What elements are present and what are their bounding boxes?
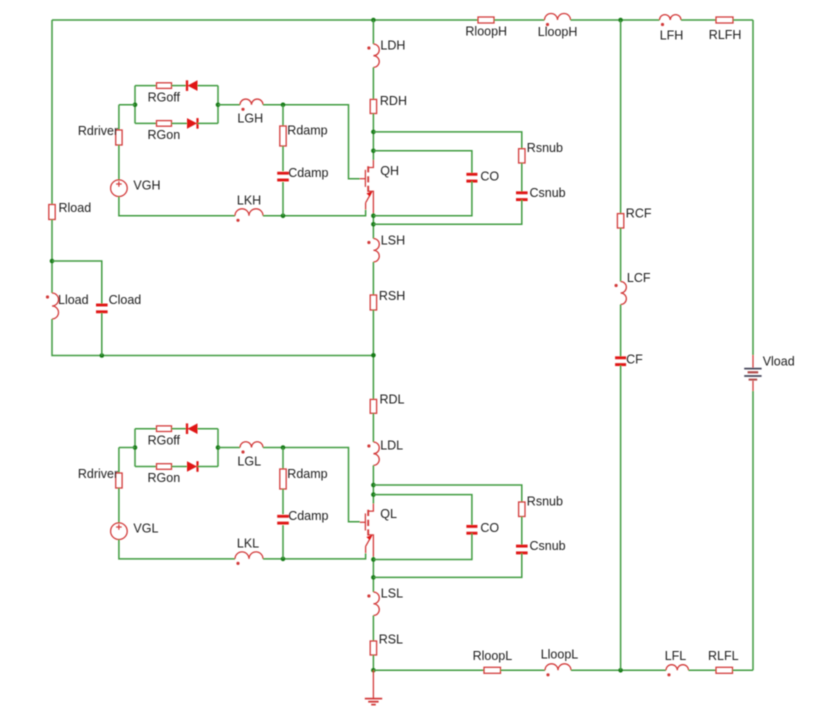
wire right rail bottom	[752, 391, 754, 670]
svg-text:LSH: LSH	[381, 234, 405, 248]
wire	[372, 616, 374, 642]
inductor LCF	[621, 282, 627, 305]
wire	[198, 85, 219, 87]
svg-text:RSH: RSH	[379, 289, 405, 303]
svg-text:QH: QH	[380, 164, 399, 178]
diode RGon L	[187, 461, 197, 472]
wire	[373, 553, 521, 577]
wire	[282, 182, 284, 216]
wire	[51, 220, 53, 294]
wire	[282, 146, 284, 171]
voltage source VGH	[111, 180, 128, 197]
wire	[119, 104, 135, 106]
svg-text:LFH: LFH	[660, 29, 684, 43]
svg-text:LCF: LCF	[627, 271, 651, 285]
svg-text:Rdamp: Rdamp	[287, 467, 327, 481]
svg-text:Cdamp: Cdamp	[288, 166, 328, 180]
svg-text:RGon: RGon	[148, 471, 181, 485]
svg-text:Rdriver: Rdriver	[78, 467, 118, 481]
wire	[372, 465, 374, 503]
junction	[371, 575, 376, 580]
wire	[218, 447, 240, 449]
voltage source VGL	[111, 523, 128, 540]
svg-text:RCF: RCF	[626, 207, 652, 221]
wire RG box right L	[217, 429, 219, 467]
wire	[119, 540, 235, 559]
resistor RDL	[370, 399, 376, 413]
resistor RGoff	[157, 83, 172, 89]
svg-text:Rdriver: Rdriver	[78, 124, 118, 138]
wire	[198, 466, 219, 468]
junction	[100, 353, 105, 358]
wire	[118, 488, 120, 523]
wire	[373, 533, 472, 559]
wire	[571, 19, 660, 21]
inductor LloopL	[545, 664, 571, 671]
svg-text:RDL: RDL	[380, 392, 405, 406]
capacitor CO H	[466, 173, 477, 176]
wire CO top H	[373, 151, 472, 174]
junction	[371, 353, 376, 358]
svg-text:RLFL: RLFL	[708, 649, 739, 663]
resistor Rdamp L	[280, 469, 286, 489]
resistor Rdriver L	[116, 473, 122, 488]
junction	[281, 445, 286, 450]
diode RGoff branch	[186, 80, 188, 91]
resistor Rsnub L	[519, 502, 525, 517]
svg-text:LKL: LKL	[237, 537, 259, 551]
svg-text:Csnub: Csnub	[530, 186, 566, 200]
wire RG box right	[217, 86, 219, 124]
wire	[372, 310, 374, 399]
inductor LSL	[373, 592, 379, 616]
svg-text:CF: CF	[626, 353, 643, 367]
svg-text:LGH: LGH	[237, 112, 263, 126]
junction	[371, 557, 376, 562]
junction	[371, 130, 376, 135]
inductor Lload	[52, 293, 59, 319]
junction	[618, 18, 623, 23]
junction	[216, 103, 221, 108]
ground	[372, 670, 374, 698]
svg-text:Vload: Vload	[763, 355, 795, 369]
transistor QH	[368, 160, 373, 168]
inductor LKH	[235, 209, 263, 216]
wire	[733, 19, 753, 21]
capacitor Csnub L	[516, 545, 528, 548]
svg-text:LGL: LGL	[237, 455, 261, 469]
svg-text:VGH: VGH	[133, 179, 160, 193]
resistor Rdamp	[280, 126, 286, 146]
wire top rail	[52, 19, 478, 21]
inductor LDL	[373, 442, 379, 465]
diode RGoff L	[186, 423, 188, 434]
wire	[571, 669, 666, 671]
wire	[373, 181, 472, 216]
wire	[172, 122, 188, 124]
svg-text:Lload: Lload	[58, 293, 89, 307]
wire	[521, 517, 523, 546]
inductor LKL	[235, 552, 263, 559]
wire	[521, 163, 523, 193]
wire	[282, 489, 284, 514]
wire	[733, 669, 754, 671]
wire	[620, 365, 622, 670]
inductor LFL	[666, 665, 689, 671]
wire	[372, 20, 374, 44]
wire	[135, 85, 157, 87]
resistor RSL	[370, 641, 376, 655]
wire	[689, 669, 717, 671]
svg-text:VGL: VGL	[133, 522, 158, 536]
svg-text:LDL: LDL	[380, 439, 403, 453]
resistor RLFL	[716, 667, 733, 673]
svg-text:Rsnub: Rsnub	[527, 141, 563, 155]
wire	[372, 413, 374, 442]
wire	[172, 428, 188, 430]
wire RG box left	[134, 86, 136, 124]
svg-text:LKH: LKH	[237, 193, 261, 207]
capacitor Cdamp	[277, 172, 289, 175]
inductor LloopH	[545, 14, 571, 21]
capacitor Cload	[96, 304, 108, 307]
wire	[372, 262, 374, 295]
wire	[101, 313, 103, 356]
resistor RGon L	[157, 464, 172, 470]
wire	[372, 114, 374, 161]
wire gate node	[263, 105, 360, 179]
svg-text:Rsnub: Rsnub	[527, 494, 563, 508]
svg-text:RloopL: RloopL	[473, 649, 513, 663]
wire bottom rail	[373, 669, 484, 671]
wire	[135, 122, 157, 124]
wire	[52, 319, 373, 356]
svg-text:Rdamp: Rdamp	[287, 124, 327, 138]
junction	[371, 668, 376, 673]
wire	[620, 228, 622, 282]
junction	[371, 483, 376, 488]
wire snubber top H	[373, 132, 521, 149]
wire kelvin L	[263, 553, 366, 559]
resistor Rload	[49, 205, 55, 220]
junction	[281, 103, 286, 108]
junction	[371, 18, 376, 23]
diode RGon branch	[187, 118, 197, 129]
wire CF rail	[620, 20, 622, 214]
junction	[371, 222, 376, 227]
capacitor CO L	[466, 525, 477, 528]
resistor Rdriver	[116, 130, 122, 145]
resistor RloopL	[484, 667, 501, 673]
wire	[198, 428, 219, 430]
wire gate node L	[263, 448, 360, 522]
wire	[620, 305, 622, 358]
junction	[371, 214, 376, 219]
wire	[135, 466, 157, 468]
svg-text:RLFH: RLFH	[709, 28, 742, 42]
resistor RGoff L	[157, 426, 172, 432]
wire	[119, 447, 135, 449]
wire Rdamp branch	[282, 105, 284, 126]
wire RG box left L	[134, 429, 136, 467]
svg-text:RGoff: RGoff	[148, 90, 181, 104]
junction	[618, 668, 623, 673]
inductor LGH	[240, 99, 263, 105]
capacitor CF	[615, 356, 626, 359]
resistor RGon	[157, 121, 172, 127]
resistor RloopH	[478, 17, 494, 23]
inductor LSH	[373, 239, 379, 263]
svg-text:Cdamp: Cdamp	[288, 509, 328, 523]
wire CO L	[373, 495, 472, 527]
svg-text:RGoff: RGoff	[148, 433, 181, 447]
svg-text:LDH: LDH	[380, 38, 405, 52]
svg-text:Csnub: Csnub	[530, 539, 566, 553]
wire	[198, 122, 219, 124]
resistor RDH	[370, 99, 376, 113]
transistor QL	[368, 504, 373, 512]
svg-text:RloopH: RloopH	[465, 24, 507, 38]
wire	[282, 525, 284, 559]
svg-text:LloopH: LloopH	[538, 25, 578, 39]
svg-text:LSL: LSL	[381, 586, 403, 600]
svg-text:CO: CO	[480, 169, 499, 183]
resistor Rsnub H	[519, 149, 525, 163]
svg-text:LloopL: LloopL	[541, 647, 579, 661]
voltage source Vload battery	[752, 355, 754, 368]
svg-text:CO: CO	[480, 521, 499, 535]
svg-text:Rload: Rload	[59, 201, 92, 215]
svg-text:RDH: RDH	[380, 94, 407, 108]
resistor RCF	[617, 214, 623, 228]
capacitor Csnub H	[516, 191, 528, 194]
junction	[133, 103, 138, 108]
resistor RSH	[370, 295, 376, 310]
wire	[172, 466, 188, 468]
wire	[372, 557, 374, 592]
wire load branch	[52, 261, 102, 304]
capacitor Cdamp L	[277, 515, 289, 518]
wire Rdamp L branch	[282, 448, 284, 470]
wire Rdriver branch	[118, 105, 120, 130]
wire	[372, 67, 374, 99]
inductor LGL	[240, 442, 263, 448]
junction	[281, 557, 286, 562]
wire	[135, 428, 157, 430]
svg-text:LFL: LFL	[665, 649, 687, 663]
wire	[681, 19, 716, 21]
junction	[371, 492, 376, 497]
wire	[218, 104, 240, 106]
wire kelvin	[263, 210, 366, 216]
wire	[118, 145, 120, 180]
junction	[281, 214, 286, 219]
wire	[119, 197, 235, 216]
inductor LFH	[660, 15, 682, 20]
svg-text:RGon: RGon	[148, 128, 181, 142]
wire	[372, 213, 374, 239]
svg-text:Cload: Cload	[109, 293, 142, 307]
wire left rail	[51, 20, 53, 205]
junction	[133, 445, 138, 450]
junction	[50, 259, 55, 264]
wire	[501, 669, 546, 671]
inductor LDH	[373, 44, 379, 67]
wire	[172, 85, 188, 87]
wire	[494, 19, 545, 21]
wire right rail top	[752, 20, 754, 355]
junction	[371, 149, 376, 154]
wire Rdriver L branch	[118, 448, 120, 474]
wire snubber L H	[373, 485, 521, 502]
wire	[373, 200, 521, 225]
wire	[372, 655, 374, 670]
resistor RLFH	[716, 17, 733, 23]
svg-text:RSL: RSL	[379, 633, 403, 647]
svg-text:QL: QL	[380, 507, 397, 521]
junction	[216, 445, 221, 450]
